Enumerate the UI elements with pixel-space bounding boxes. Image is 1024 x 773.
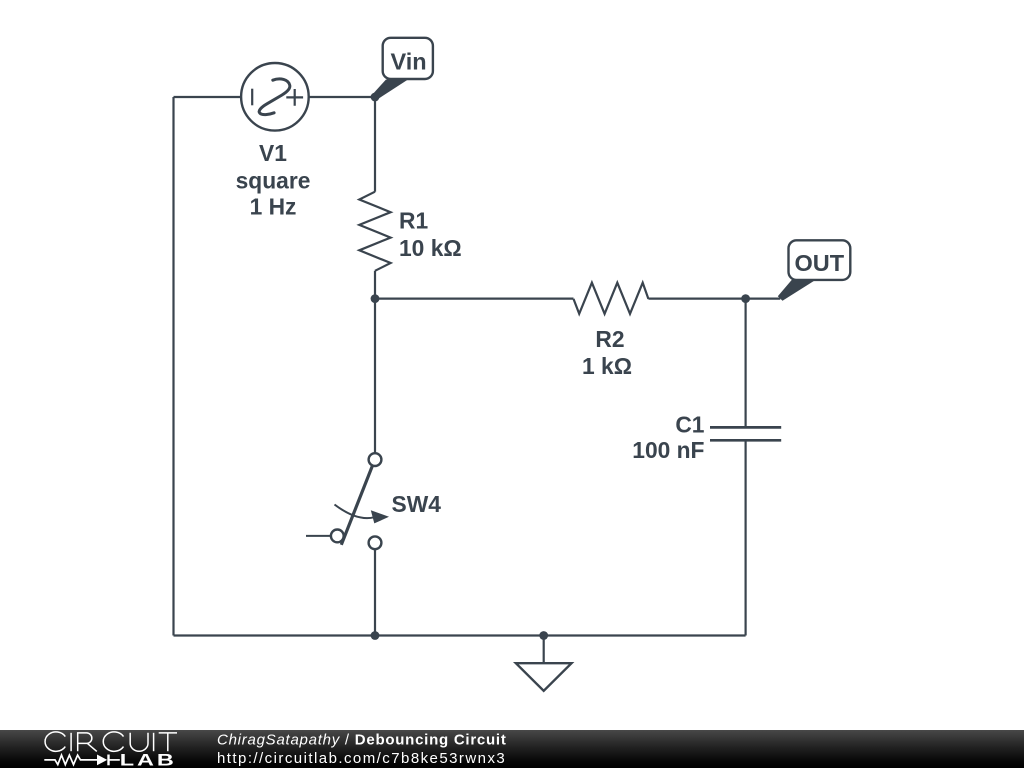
node flag Vin bbox=[372, 38, 433, 100]
svg-text:1 kΩ: 1 kΩ bbox=[582, 353, 632, 379]
svg-text:ChiragSatapathy / Debouncing C: ChiragSatapathy / Debouncing Circuit bbox=[217, 732, 507, 749]
wire source to node Vin bbox=[309, 96, 376, 98]
wire mid node to R2 bbox=[375, 298, 574, 300]
ground bbox=[516, 636, 572, 691]
label R2 value bbox=[582, 326, 632, 379]
wire C1 down to bottom bbox=[744, 440, 746, 635]
resistor R2 bbox=[574, 283, 649, 314]
wire left vertical bbox=[172, 97, 174, 636]
node OUT junction dot bbox=[741, 294, 750, 303]
svg-text:square: square bbox=[236, 167, 311, 193]
svg-text:C1: C1 bbox=[675, 412, 704, 438]
svg-text:SW4: SW4 bbox=[392, 491, 442, 517]
resistor R1 bbox=[359, 192, 390, 271]
node bottom-left junction dot bbox=[371, 631, 380, 640]
wire Vin node to R1 bbox=[374, 97, 376, 192]
wire OUT node down to C1 bbox=[744, 299, 746, 428]
svg-text:LAB: LAB bbox=[120, 751, 177, 768]
label R1 value bbox=[399, 208, 462, 262]
label V1 value bbox=[236, 140, 311, 220]
svg-text:1 Hz: 1 Hz bbox=[250, 194, 297, 220]
svg-text:100 nF: 100 nF bbox=[632, 437, 704, 463]
svg-text:V1: V1 bbox=[259, 140, 287, 166]
wire R1 to mid node bbox=[374, 271, 376, 299]
svg-text:OUT: OUT bbox=[795, 250, 845, 276]
svg-text:R2: R2 bbox=[595, 326, 624, 352]
switch SW4 bbox=[306, 453, 389, 549]
capacitor C1 bbox=[710, 427, 781, 440]
voltage source V1 bbox=[241, 63, 309, 131]
wire bottom horizontal bbox=[174, 634, 746, 636]
svg-text:R1: R1 bbox=[399, 208, 428, 234]
logo resistor-diode glyph bbox=[44, 755, 120, 766]
wire mid node down to switch bbox=[374, 299, 376, 454]
node ground junction dot bbox=[539, 631, 548, 640]
node Vin junction dot bbox=[371, 93, 380, 102]
wire top-left to source bbox=[174, 96, 242, 98]
wire OUT node stub bbox=[746, 298, 781, 300]
svg-text:10 kΩ: 10 kΩ bbox=[399, 235, 462, 261]
wire switch down to bottom bbox=[374, 549, 376, 635]
label C1 value bbox=[632, 412, 705, 463]
node mid junction dot bbox=[371, 294, 380, 303]
svg-text:http://circuitlab.com/c7b8ke53: http://circuitlab.com/c7b8ke53rwnx3 bbox=[217, 750, 506, 767]
footer bar bbox=[0, 730, 1024, 768]
wire R2 to OUT node bbox=[648, 298, 745, 300]
svg-text:Vin: Vin bbox=[391, 49, 427, 75]
node flag OUT bbox=[778, 240, 851, 300]
logo CIRCUIT lettering bbox=[45, 732, 177, 752]
